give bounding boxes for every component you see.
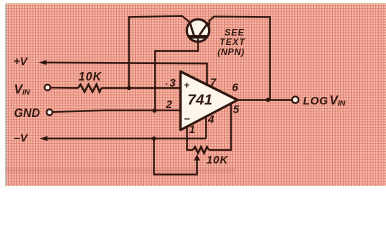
svg-text:1: 1: [189, 124, 195, 136]
wire wiper to -V: [154, 139, 197, 175]
output label LOG VIN: [303, 93, 346, 107]
wire -V rail to pin 4: [46, 138, 206, 140]
node junction wiper to -V: [152, 136, 156, 140]
pin 1 label: [189, 124, 195, 136]
pin 6 label: [232, 82, 239, 94]
transistor Q1: [187, 19, 211, 41]
output terminal circle: [292, 97, 299, 104]
wire feedback input side vertical: [129, 16, 190, 88]
GND terminal circle: [47, 109, 53, 115]
resistor R1 10K: [78, 85, 102, 92]
trimmer R2 value label 10K: [207, 155, 229, 167]
trimmer potentiometer R2 10K: [193, 147, 209, 166]
wire +V rail to pin 7: [45, 63, 207, 86]
bottom shadow band: [5, 168, 235, 174]
wire resistor to pin 3: [102, 87, 182, 89]
svg-text:10K: 10K: [79, 72, 103, 84]
wire pin 5 to trimmer: [209, 104, 231, 150]
+V arrowhead: [39, 60, 47, 65]
+V supply rail label: [14, 56, 29, 68]
svg-text:(NPN): (NPN): [218, 47, 245, 57]
svg-text:SEE: SEE: [225, 28, 245, 38]
svg-text:10K: 10K: [207, 155, 229, 167]
GND terminal label: [14, 108, 40, 120]
svg-text:5: 5: [233, 104, 240, 116]
transistor note label: [218, 28, 247, 58]
node junction base to ground: [152, 109, 156, 113]
svg-text:2: 2: [165, 99, 172, 111]
pin 5 label: [233, 104, 240, 116]
wire GND to pin 2: [53, 110, 181, 112]
pin 4 label: [207, 114, 214, 126]
svg-text:TEXT: TEXT: [220, 37, 247, 47]
node junction output feedback: [266, 98, 270, 102]
pin 7 label: [210, 77, 217, 89]
resistor R1 value label 10K: [79, 72, 103, 84]
svg-text:+V: +V: [14, 56, 29, 68]
pin 3 label: [166, 78, 176, 90]
panel left edge shadow: [5, 4, 7, 186]
svg-text:GND: GND: [14, 108, 40, 120]
svg-text:–V: –V: [14, 133, 29, 145]
wire VIN to resistor: [51, 87, 78, 89]
wire emitter to output: [209, 17, 271, 101]
node junction at inverting input feed: [127, 86, 131, 90]
-V arrowhead: [40, 136, 48, 141]
wire base to ground line: [155, 39, 198, 111]
svg-text:+: +: [184, 80, 190, 91]
wire pin 4: [205, 117, 207, 139]
-V supply rail label: [14, 133, 29, 145]
VIN terminal circle: [45, 85, 51, 91]
pin 2 label: [165, 99, 172, 111]
svg-text:3: 3: [170, 78, 176, 90]
op-amp U1 741 triangle: [181, 72, 238, 131]
svg-text:741: 741: [188, 92, 213, 109]
wire pin 1 to trimmer: [187, 127, 193, 150]
panel top edge line: [6, 3, 386, 4]
wire output pin 6: [238, 99, 293, 101]
pink textured panel: [6, 4, 386, 186]
svg-text:6: 6: [232, 82, 239, 94]
input terminal VIN label: [14, 83, 30, 97]
svg-text:LOG: LOG: [303, 95, 328, 107]
